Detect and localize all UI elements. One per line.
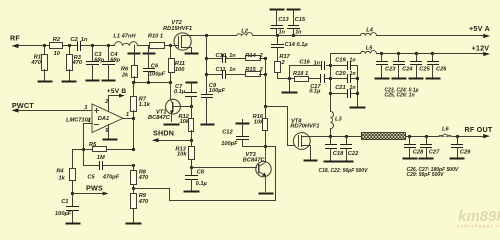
wire output line bbox=[407, 135, 483, 138]
svg-text:2: 2 bbox=[104, 99, 108, 105]
inductor L4 bbox=[361, 28, 377, 36]
svg-text:2: 2 bbox=[259, 67, 263, 73]
op-amp DA1 bbox=[66, 99, 129, 134]
wire RF line segment A bbox=[63, 45, 77, 47]
svg-text:R5: R5 bbox=[89, 142, 97, 148]
resistor R13 bbox=[175, 141, 194, 168]
note output cap values bbox=[407, 167, 459, 178]
svg-text:0.1µ: 0.1µ bbox=[196, 181, 208, 187]
wire VT4 drain line bbox=[311, 135, 362, 138]
svg-text:C6: C6 bbox=[151, 64, 159, 70]
svg-text:3: 3 bbox=[84, 105, 87, 111]
watermark bbox=[457, 208, 500, 230]
resistor R18 bbox=[290, 71, 321, 81]
wire gate feed from R14/R15 node bbox=[266, 107, 295, 146]
svg-text:C29: C29 bbox=[460, 150, 471, 156]
svg-text:C2: C2 bbox=[70, 37, 78, 43]
transistor VT1 bbox=[148, 83, 192, 122]
capacitor C3 bbox=[87, 46, 105, 80]
svg-text:RD70HVF1: RD70HVF1 bbox=[290, 124, 319, 130]
svg-text:68p: 68p bbox=[110, 57, 120, 63]
node RF OUT bbox=[465, 125, 493, 138]
svg-text:RD15HVF1: RD15HVF1 bbox=[163, 26, 192, 32]
ground under C4 bbox=[103, 80, 115, 82]
wire R10 to VT2 gate bbox=[165, 45, 179, 47]
capacitor C6 tap from RF line bbox=[144, 46, 166, 83]
svg-text:C10,: C10, bbox=[216, 53, 228, 59]
capacitor C12 bbox=[221, 120, 265, 147]
svg-text:R6: R6 bbox=[121, 66, 129, 72]
node A junction dots on RF line bbox=[43, 44, 172, 47]
capacitor C9 bbox=[202, 83, 226, 123]
svg-text:1n: 1n bbox=[81, 37, 88, 43]
transistor VT4 bbox=[290, 118, 319, 160]
wire DA1 output node bbox=[123, 117, 136, 150]
ground under C19-C21 chain bbox=[351, 107, 365, 109]
inductor L6 bbox=[439, 127, 453, 137]
transistor VT2 bbox=[163, 20, 193, 53]
note C23-C26 values bbox=[385, 87, 419, 98]
capacitor C26 bbox=[427, 54, 448, 79]
svg-text:1n: 1n bbox=[349, 57, 356, 63]
svg-text:470: 470 bbox=[72, 60, 83, 66]
svg-text:1n: 1n bbox=[349, 85, 356, 91]
svg-text:100µF: 100µF bbox=[55, 211, 72, 217]
svg-text:L3: L3 bbox=[335, 116, 342, 122]
svg-text:470: 470 bbox=[138, 175, 149, 181]
svg-text:2: 2 bbox=[259, 53, 263, 59]
wire feedback to R4 bbox=[73, 150, 84, 169]
capacitor C17 bbox=[309, 75, 330, 95]
resistor R17 bbox=[275, 54, 291, 78]
svg-text:km89F: km89F bbox=[458, 208, 500, 225]
wire VT3 base line bbox=[192, 167, 257, 169]
ground pin 5 of DA1 bbox=[104, 125, 117, 140]
svg-text:0.1µ: 0.1µ bbox=[174, 89, 186, 95]
capacitor C1 bbox=[55, 194, 79, 223]
wire C10/C11 left vertical bbox=[205, 36, 208, 94]
svg-text:+12V: +12V bbox=[472, 44, 490, 53]
svg-text:C23: C23 bbox=[385, 66, 396, 72]
svg-text:1n: 1n bbox=[279, 30, 286, 36]
svg-text:C28: C28 bbox=[413, 150, 424, 156]
resistor R3 bbox=[67, 46, 83, 81]
svg-text:1n: 1n bbox=[295, 30, 302, 36]
svg-text:+5V A: +5V A bbox=[469, 24, 490, 33]
node +5V A bbox=[469, 24, 490, 38]
svg-text:C1: C1 bbox=[61, 199, 68, 205]
svg-text:10: 10 bbox=[54, 51, 61, 57]
wire C19 box right vertical bbox=[356, 66, 359, 107]
svg-text:C15: C15 bbox=[295, 17, 306, 23]
svg-text:2k: 2k bbox=[121, 73, 129, 79]
resistor R10 bbox=[148, 34, 165, 49]
ground under VT2 source bbox=[186, 53, 198, 55]
resistor R12 bbox=[178, 107, 193, 141]
svg-text:470pF: 470pF bbox=[102, 175, 120, 181]
capacitor C10 bbox=[207, 53, 246, 62]
svg-text:100: 100 bbox=[175, 67, 185, 73]
node R16/VT3 collector/C12 junction bbox=[264, 145, 267, 148]
ground under C18 bbox=[325, 161, 338, 163]
svg-text:C11: C11 bbox=[216, 67, 226, 73]
svg-text:r a d i o f a n a t . r u: r a d i o f a n a t . r u bbox=[457, 224, 500, 230]
capacitor C24 bbox=[393, 54, 414, 79]
inductor L2 bbox=[237, 29, 253, 36]
svg-text:C16: C16 bbox=[299, 59, 310, 65]
capacitor C20 bbox=[331, 71, 358, 83]
svg-text:C25, C26: 1n: C25, C26: 1n bbox=[385, 93, 415, 99]
resistor R5 bbox=[82, 142, 135, 161]
svg-text:C20: C20 bbox=[335, 71, 346, 77]
resistor R16 bbox=[253, 107, 268, 147]
svg-text:1: 1 bbox=[126, 112, 129, 118]
resistor R8 bbox=[131, 166, 150, 189]
svg-text:10k: 10k bbox=[254, 119, 264, 125]
capacitor C2 bbox=[70, 37, 88, 51]
svg-text:C14 0.1µ: C14 0.1µ bbox=[285, 42, 309, 48]
capacitor C19 bbox=[331, 57, 358, 69]
svg-text:1n: 1n bbox=[229, 53, 236, 59]
ground under C22 bbox=[340, 161, 353, 163]
node PWS bbox=[71, 184, 109, 196]
ground under VT1 emitter bbox=[165, 124, 179, 126]
svg-text:C13: C13 bbox=[278, 17, 289, 23]
svg-text:C19: C19 bbox=[335, 57, 346, 63]
capacitor C11 bbox=[207, 67, 246, 78]
ground under C3 bbox=[87, 80, 99, 82]
resistor R6 tap from RF line bbox=[121, 46, 140, 83]
svg-text:1n: 1n bbox=[314, 60, 321, 66]
capacitor C22 bbox=[341, 137, 360, 161]
capacitor C8 bbox=[186, 168, 208, 192]
svg-text:RF OUT: RF OUT bbox=[465, 125, 493, 134]
svg-text:C22: C22 bbox=[348, 151, 359, 157]
capacitor C15 bbox=[288, 10, 306, 36]
svg-text:C29: 56pF 500V: C29: 56pF 500V bbox=[407, 172, 445, 178]
svg-text:100µF: 100µF bbox=[209, 88, 226, 94]
node SHDN bbox=[152, 129, 193, 143]
capacitor C16 bbox=[290, 59, 331, 78]
svg-text:R10 1: R10 1 bbox=[148, 34, 163, 40]
ground under C8 bbox=[185, 191, 199, 193]
wire inverting input pin4 bbox=[84, 124, 93, 150]
svg-text:470: 470 bbox=[138, 199, 149, 205]
svg-text:C24: C24 bbox=[402, 66, 413, 72]
svg-text:C18: C18 bbox=[333, 151, 344, 157]
resistor R9 bbox=[131, 187, 150, 223]
capacitor C5 bbox=[84, 150, 136, 181]
svg-text:C5: C5 bbox=[87, 175, 95, 181]
ground under C29 bbox=[451, 158, 464, 160]
ground under R3 bbox=[63, 81, 76, 83]
power pin 2 with +5V B arrow bbox=[107, 88, 127, 112]
svg-text:R14: R14 bbox=[245, 53, 256, 59]
inductor L3 bbox=[331, 112, 343, 136]
svg-text:DA1: DA1 bbox=[98, 116, 109, 122]
svg-text:C12: C12 bbox=[222, 129, 233, 135]
capacitor C28 bbox=[405, 137, 425, 158]
resistor R2 bbox=[50, 37, 63, 57]
svg-text:L2: L2 bbox=[241, 29, 248, 35]
ground under VT3 emitter bbox=[260, 193, 273, 195]
svg-text:RF: RF bbox=[10, 34, 20, 43]
svg-text:10k: 10k bbox=[180, 119, 190, 125]
wire C19 box left vertical bbox=[329, 54, 332, 112]
svg-text:L1 47nH: L1 47nH bbox=[113, 34, 136, 40]
svg-text:L4: L4 bbox=[366, 28, 373, 34]
inductor L1 bbox=[113, 34, 137, 46]
svg-text:BC847C: BC847C bbox=[148, 115, 171, 121]
capacitor C18 bbox=[326, 137, 345, 161]
ground under R17/R18 node bbox=[283, 77, 297, 93]
svg-text:SHDN: SHDN bbox=[153, 129, 174, 138]
svg-text:PWS: PWS bbox=[86, 184, 103, 193]
svg-text:BC847C: BC847C bbox=[243, 157, 266, 163]
resistor R15 bbox=[245, 67, 267, 76]
svg-text:68p: 68p bbox=[94, 57, 104, 63]
svg-text:1.1k: 1.1k bbox=[139, 102, 151, 108]
svg-text:1M: 1M bbox=[97, 155, 105, 161]
capacitor C27 bbox=[421, 137, 441, 158]
svg-text:C25: C25 bbox=[419, 66, 430, 72]
svg-text:C8: C8 bbox=[197, 169, 205, 175]
inductor L5 bbox=[361, 45, 377, 53]
svg-text:R18 1: R18 1 bbox=[293, 71, 308, 77]
ground under C1 bbox=[67, 223, 80, 225]
ground under C27 bbox=[420, 158, 433, 160]
svg-text:R15: R15 bbox=[245, 67, 256, 73]
ground under C28 bbox=[404, 158, 417, 160]
capacitor C4 bbox=[103, 46, 121, 80]
transistor VT3 bbox=[243, 147, 271, 192]
wire bottom bus R8/R9 junction to VT4 gate node bbox=[134, 147, 276, 201]
node VT1 base / R12 / C7 bbox=[190, 105, 193, 108]
ground bar under C9 bbox=[202, 124, 214, 126]
capacitor C25 bbox=[410, 54, 431, 79]
wire RF line segment B bbox=[81, 45, 115, 47]
resistor R7 bbox=[131, 83, 151, 119]
svg-text:L6: L6 bbox=[442, 127, 449, 133]
svg-text:R4: R4 bbox=[56, 169, 64, 175]
svg-text:470: 470 bbox=[30, 60, 41, 66]
svg-text:1n: 1n bbox=[349, 71, 356, 77]
wire +5VB bus bbox=[132, 81, 172, 84]
capacitor C21 bbox=[331, 85, 358, 97]
capacitor C29 bbox=[452, 137, 472, 158]
svg-text:C21: C21 bbox=[335, 85, 345, 91]
svg-text:C18, C22: 56pF 500V: C18, C22: 56pF 500V bbox=[319, 168, 369, 174]
node PWCT bbox=[12, 101, 93, 113]
svg-text:C27: C27 bbox=[429, 150, 440, 156]
capacitor C14 bbox=[272, 36, 309, 62]
svg-text:C26: C26 bbox=[436, 66, 447, 72]
svg-text:10k: 10k bbox=[177, 152, 187, 158]
resistor R11 bbox=[169, 46, 186, 83]
wire +12V rail bbox=[331, 52, 483, 55]
svg-text:L5: L5 bbox=[366, 45, 373, 51]
svg-text:0.1µ: 0.1µ bbox=[309, 88, 321, 94]
svg-text:R2: R2 bbox=[53, 37, 61, 43]
svg-text:1k: 1k bbox=[58, 175, 65, 181]
resistor R1 bbox=[30, 46, 47, 81]
wire L1 to R10 bbox=[138, 45, 150, 47]
ground under R9 bbox=[127, 223, 141, 225]
ground under VT4 source bbox=[305, 160, 317, 162]
capacitor C23 bbox=[376, 54, 397, 79]
node RF input bbox=[10, 34, 50, 49]
svg-text:100µF: 100µF bbox=[149, 71, 166, 77]
svg-text:1n: 1n bbox=[229, 67, 236, 73]
resistor R14 bbox=[245, 53, 267, 60]
wire R14/R15 right vertical bbox=[264, 59, 267, 109]
ground under R1 bbox=[39, 81, 52, 83]
wire VT2 drain line / +5VA line bbox=[193, 34, 483, 37]
capacitor C13 bbox=[271, 10, 290, 36]
svg-text:100pF: 100pF bbox=[221, 141, 238, 147]
node +12V bbox=[472, 44, 491, 57]
svg-text:PWCT: PWCT bbox=[12, 101, 34, 110]
capacitor C7 bbox=[174, 83, 197, 107]
svg-text:+5V B: +5V B bbox=[107, 88, 127, 95]
transmission line W1 hatched box bbox=[362, 133, 406, 140]
node R13/C8/VT3 base bbox=[190, 166, 193, 169]
resistor R4 bbox=[56, 169, 75, 194]
